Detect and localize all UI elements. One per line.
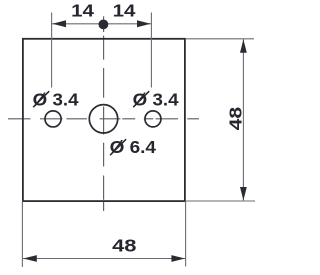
right dim arrow up	[240, 39, 247, 52]
right dimension line	[242, 39, 244, 200]
svg-text:Ø 3.4: Ø 3.4	[133, 89, 179, 109]
bottom dimension extension line right	[185, 201, 187, 267]
diameter slash right label	[133, 91, 149, 107]
top dimension extension line right	[150, 13, 152, 88]
svg-text:48: 48	[112, 236, 137, 256]
top right arrow	[137, 20, 151, 27]
svg-text:Ø 3.4: Ø 3.4	[33, 89, 79, 109]
plate outline 48x48	[23, 39, 185, 201]
hole right Ø3.4	[145, 111, 161, 127]
top left arrow	[52, 20, 66, 27]
top dimension extension line left	[51, 13, 53, 88]
hole center Ø6.4	[89, 105, 117, 133]
svg-text:14: 14	[113, 1, 136, 21]
right dimension extension line top	[186, 38, 254, 40]
vertical centerline	[103, 16, 105, 211]
diameter slash left label	[33, 91, 49, 107]
diameter slash center label	[110, 139, 126, 155]
svg-text:Ø 6.4: Ø 6.4	[110, 137, 157, 157]
bottom right arrow	[171, 255, 185, 262]
bottom dimension line	[23, 258, 186, 260]
bottom left arrow	[23, 255, 37, 262]
horizontal centerline	[8, 118, 199, 120]
hole left Ø3.4	[45, 111, 61, 127]
svg-text:48: 48	[225, 107, 245, 131]
top center dot	[99, 20, 109, 30]
bottom dimension extension line left	[21, 201, 23, 267]
right dim arrow down	[240, 187, 247, 200]
top dimension line	[52, 23, 152, 25]
svg-text:14: 14	[71, 1, 94, 21]
right dimension extension line bottom	[186, 200, 255, 202]
